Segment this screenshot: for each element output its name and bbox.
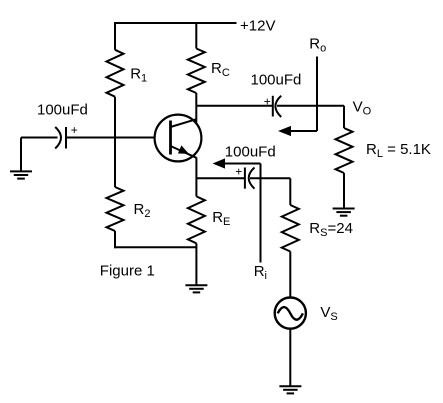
svg-text:100uFd: 100uFd [225,143,276,160]
svg-text:100uFd: 100uFd [37,101,88,118]
svg-text:+: + [235,165,242,179]
svg-text:+: + [264,95,271,109]
svg-text:Ro: Ro [309,35,326,54]
svg-text:Figure 1: Figure 1 [100,262,155,279]
svg-text:100uFd: 100uFd [251,71,302,88]
svg-text:Ri: Ri [254,263,267,282]
svg-text:VS: VS [320,304,337,323]
svg-text:RC: RC [211,60,230,79]
svg-text:R1: R1 [130,65,147,84]
svg-text:RE: RE [212,209,230,228]
svg-text:RS=24: RS=24 [309,220,353,239]
svg-text:R2: R2 [134,201,151,220]
svg-text:VO: VO [353,99,372,118]
svg-text:RL = 5.1K: RL = 5.1K [366,141,431,160]
svg-text:+12V: +12V [240,18,275,35]
svg-text:+: + [71,123,78,137]
